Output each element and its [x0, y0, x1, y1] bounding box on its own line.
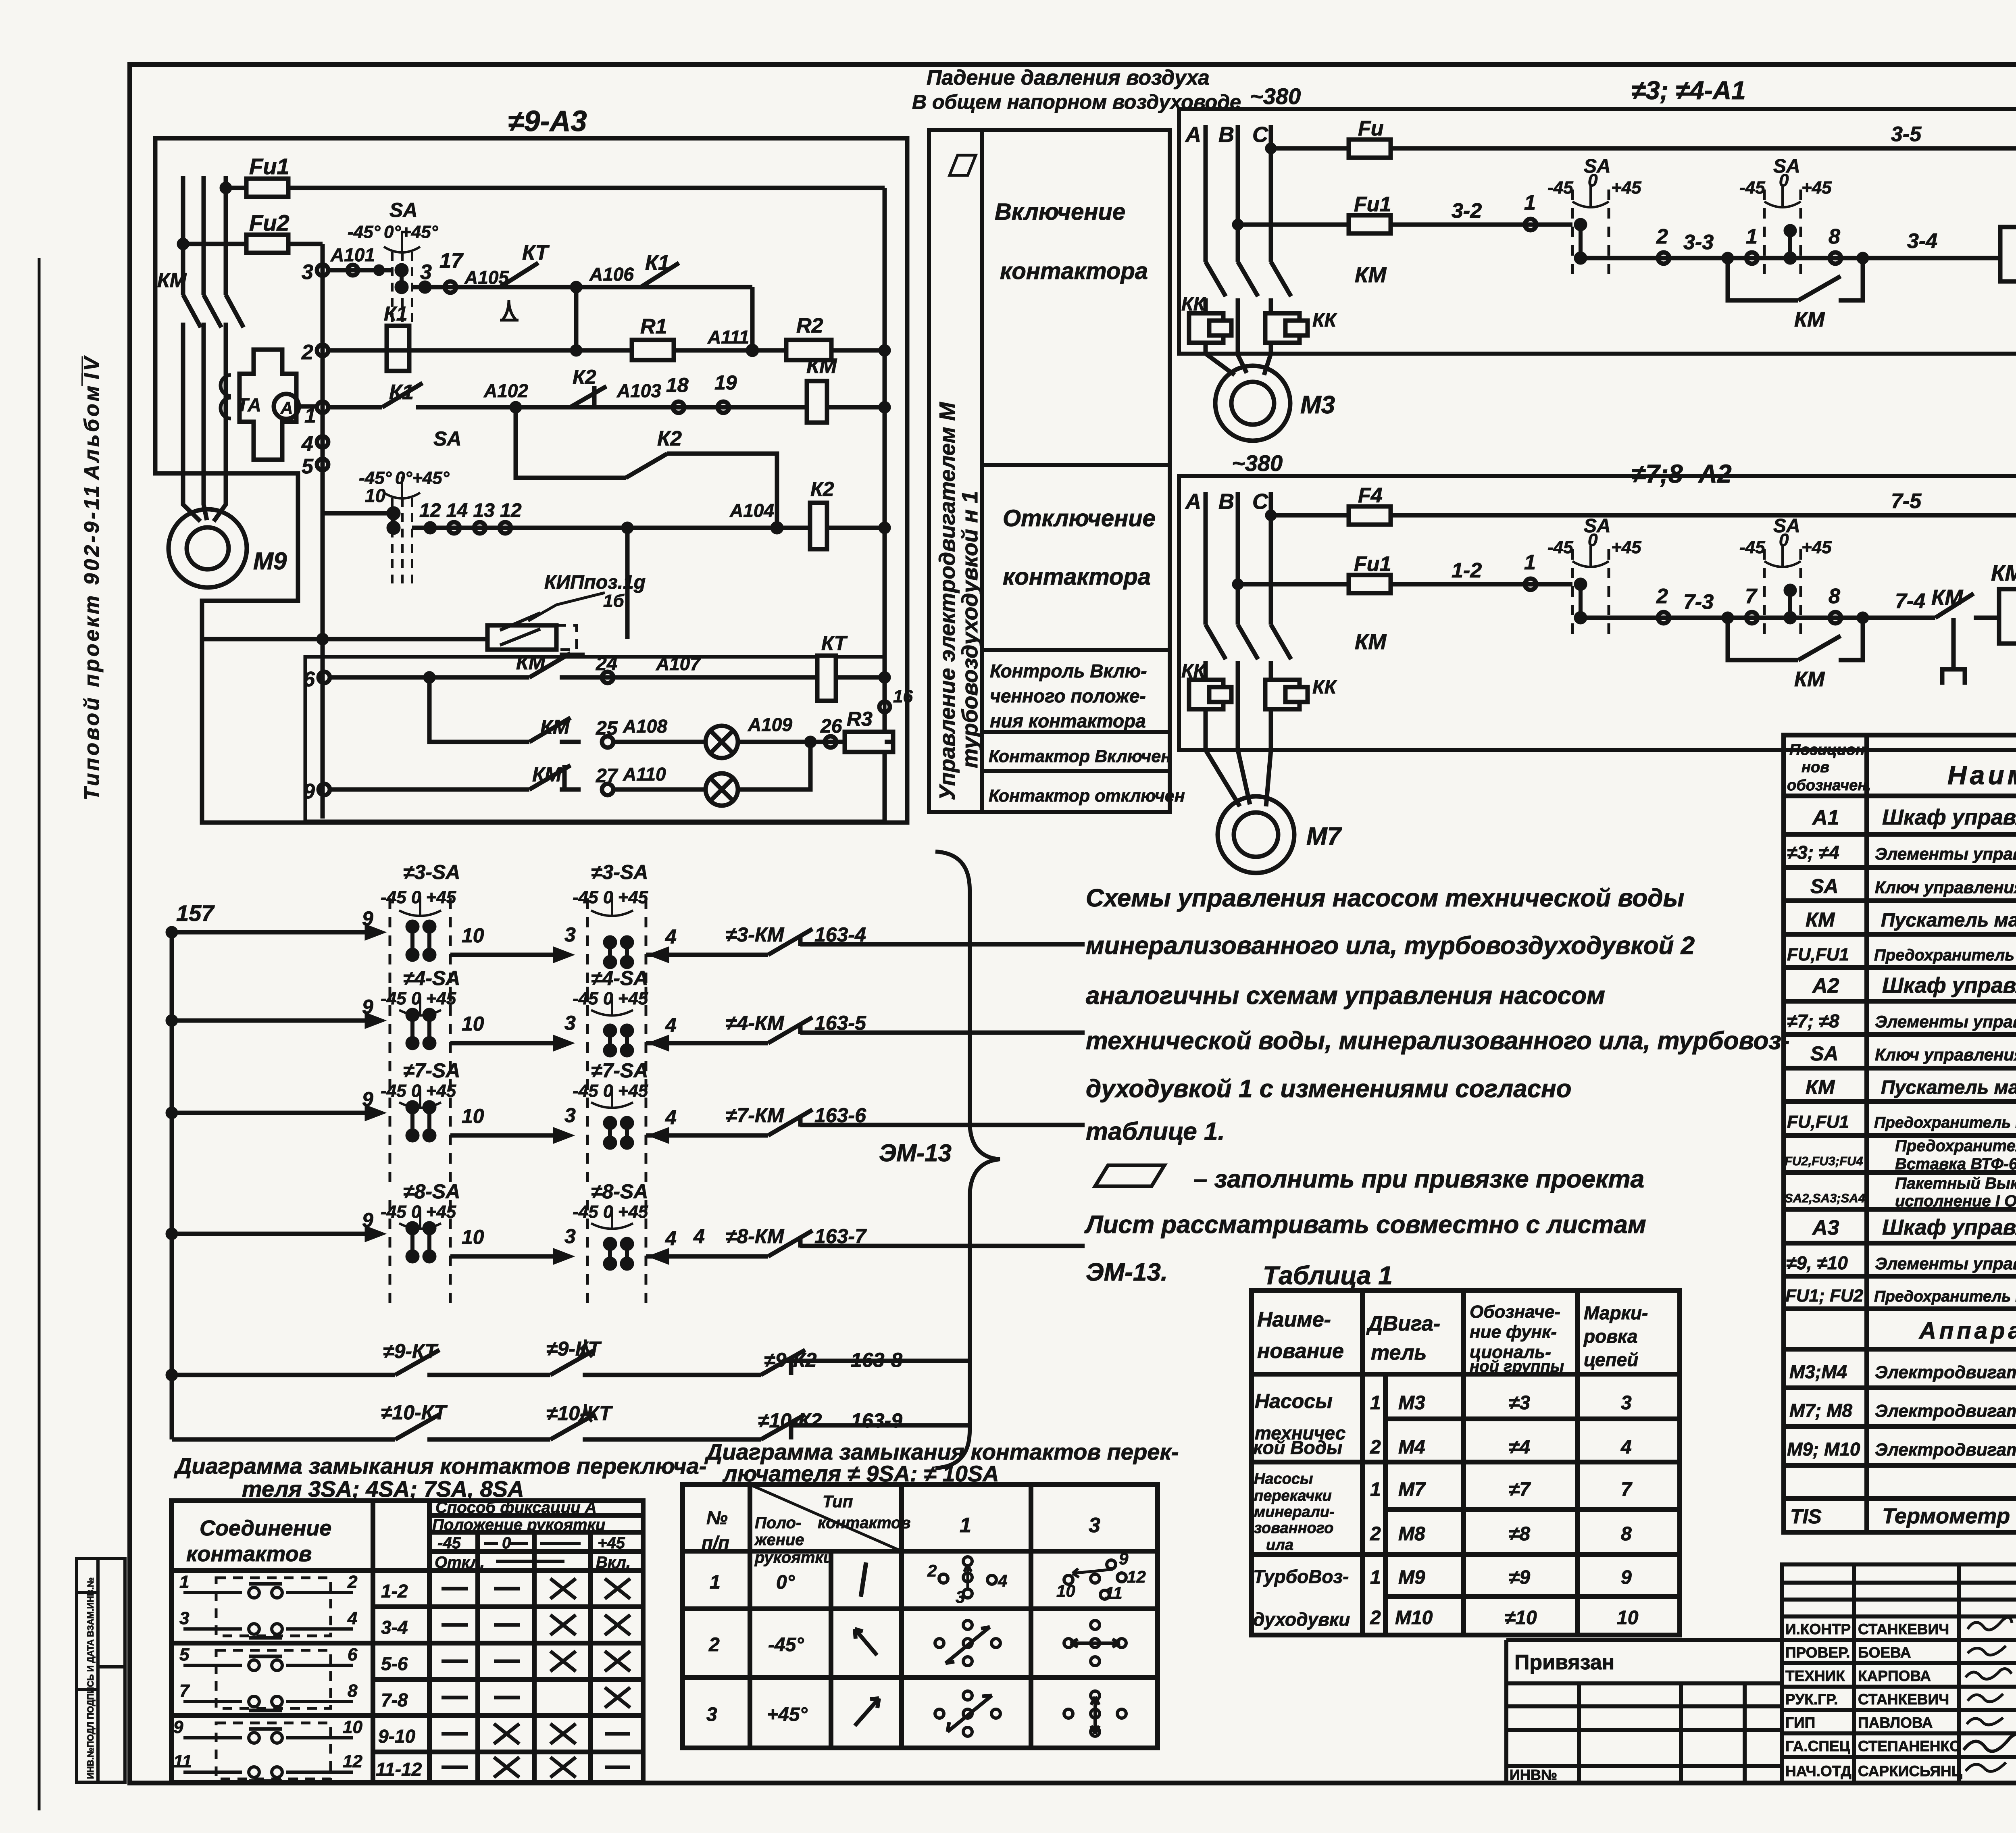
svg-text:≠7: ≠7	[1509, 1479, 1531, 1500]
svg-text:-45 0 +45: -45 0 +45	[381, 1202, 456, 1222]
svg-text:ПАВЛОВА: ПАВЛОВА	[1858, 1714, 1933, 1731]
contactor aux contact KM row7	[529, 718, 571, 742]
thermal element KK phase C	[1265, 680, 1300, 709]
node 24	[602, 672, 613, 683]
svg-text:-45: -45	[1547, 178, 1573, 198]
svg-text:Включение: Включение	[995, 199, 1125, 225]
function strip table	[929, 130, 1170, 812]
right-side bus	[883, 407, 887, 821]
svg-text:24: 24	[596, 653, 617, 675]
svg-text:М8: М8	[1398, 1523, 1425, 1545]
svg-text:4: 4	[998, 1571, 1007, 1590]
svg-text:4: 4	[1620, 1437, 1632, 1458]
terminal 3	[317, 265, 328, 276]
svg-text:R1: R1	[640, 315, 667, 338]
svg-text:Аппаратура по месту: Аппаратура по месту	[1918, 1318, 2016, 1344]
svg-text:контактора: контактора	[1000, 258, 1148, 284]
svg-text:-45 0 +45: -45 0 +45	[573, 1202, 648, 1222]
fuse F4 top rail	[1267, 512, 1275, 519]
svg-text:К1: К1	[389, 381, 414, 404]
svg-text:2: 2	[708, 1634, 720, 1656]
svg-text:теля 3SА; 4SА; 7SА, 8SА: теля 3SА; 4SА; 7SА, 8SА	[242, 1476, 524, 1502]
svg-text:СТАНКЕВИЧ: СТАНКЕВИЧ	[1858, 1691, 1949, 1708]
svg-text:FU1; FU2: FU1; FU2	[1785, 1286, 1864, 1306]
node 8	[1830, 612, 1841, 623]
svg-text:НАЧ.ОТД: НАЧ.ОТД	[1785, 1763, 1851, 1779]
node 18	[673, 402, 684, 413]
svg-text:4: 4	[665, 1014, 677, 1036]
svg-text:9: 9	[1621, 1567, 1632, 1588]
svg-text:ЭМ-13.: ЭМ-13.	[1086, 1258, 1168, 1286]
svg-text:Насосы: Насосы	[1255, 1390, 1333, 1412]
svg-text:10: 10	[365, 485, 386, 506]
svg-text:ИНВ№: ИНВ№	[1510, 1766, 1557, 1783]
relay contact K2 NC row1	[570, 386, 606, 407]
svg-text:1: 1	[1370, 1567, 1381, 1588]
motor M3	[1215, 366, 1290, 441]
terminal 5	[317, 459, 328, 470]
time contact #9-KT b with release	[550, 1350, 595, 1375]
svg-text:Шкаф управления ШУН14-01 (АУ-: Шкаф управления ШУН14-01 (АУ-7)	[1882, 973, 2016, 998]
svg-text:1: 1	[1524, 191, 1536, 215]
svg-text:9: 9	[362, 996, 373, 1018]
svg-text:≠10-КТ: ≠10-КТ	[381, 1401, 448, 1424]
svg-text:6: 6	[303, 668, 315, 691]
svg-text:А103: А103	[616, 380, 661, 401]
svg-text:Наименование: Наименование	[1947, 760, 2016, 790]
svg-text:контактов: контактов	[818, 1514, 911, 1532]
svg-text:Вставка ВТФ-6 ТУ16-521.037- 7: Вставка ВТФ-6 ТУ16-521.037- 75	[1895, 1155, 2016, 1173]
resistor R3	[845, 732, 893, 752]
svg-text:3: 3	[564, 923, 576, 946]
switch row SA7	[168, 1059, 1085, 1185]
relay contact K1 row1	[328, 383, 885, 407]
node A102	[512, 403, 520, 411]
svg-text:духодувкой 1 с изменениями с: духодувкой 1 с изменениями согласно	[1086, 1075, 1572, 1103]
node 19	[718, 402, 729, 413]
svg-text:КМ: КМ	[1794, 668, 1825, 691]
svg-text:≠3-SА: ≠3-SА	[403, 861, 460, 883]
svg-text:контактов: контактов	[186, 1542, 312, 1566]
self-hold branch KM	[1724, 254, 1732, 262]
svg-text:Ключ управленияПКУ3-12А3021 ТУ: Ключ управленияПКУ3-12А3021 ТУ16.526-047…	[1875, 878, 2016, 897]
svg-text:1б: 1б	[603, 591, 625, 611]
contactor KM main contacts	[183, 295, 244, 327]
svg-text:9: 9	[173, 1717, 183, 1737]
svg-text:К2: К2	[573, 366, 596, 388]
switch row SA4	[168, 967, 1085, 1092]
motor M7	[1218, 796, 1294, 873]
svg-text:К1: К1	[645, 251, 670, 275]
svg-text:духодувки: духодувки	[1253, 1609, 1350, 1630]
node 26	[825, 736, 836, 748]
svg-text:А2: А2	[1812, 974, 1839, 998]
svg-text:≠9-КТ: ≠9-КТ	[546, 1337, 602, 1360]
svg-text:М4: М4	[1398, 1437, 1425, 1458]
relay row KT9	[168, 1337, 968, 1379]
svg-text:1: 1	[1370, 1479, 1381, 1500]
svg-text:Fu1: Fu1	[249, 154, 289, 179]
svg-text:КМ: КМ	[1806, 1076, 1835, 1098]
svg-text:≠3: ≠3	[1509, 1392, 1530, 1414]
svg-text:тель: тель	[1371, 1341, 1427, 1364]
svg-text:≠3-КМ: ≠3-КМ	[726, 923, 785, 946]
svg-text:9: 9	[362, 1088, 373, 1110]
svg-text:16: 16	[893, 687, 913, 706]
svg-text:26: 26	[820, 716, 842, 737]
switch row SA3	[168, 861, 1085, 1004]
node 1b	[1746, 252, 1758, 264]
branch to K2 contact	[516, 407, 777, 524]
node 1	[1525, 579, 1536, 590]
svg-text:9-10: 9-10	[378, 1726, 415, 1747]
switch SA lower dashed stems	[392, 498, 412, 585]
signature table	[1782, 1564, 2016, 1783]
svg-text:SА: SА	[1810, 875, 1838, 898]
lamp row9	[706, 773, 738, 806]
svg-text:Электродвигатель типа: Электродвигатель типа	[1875, 1440, 2016, 1460]
svg-text:Электродвигатель типа АО2-22-4: Электродвигатель типа АО2-22-4; 1.5 кВт;…	[1875, 1362, 2016, 1382]
svg-text:В: В	[1218, 123, 1234, 147]
svg-text:≠4-SА: ≠4-SА	[591, 967, 648, 989]
svg-text:Контактор отключен: Контактор отключен	[989, 786, 1185, 806]
svg-text:163-8: 163-8	[851, 1349, 902, 1371]
svg-text:≠9-КТ: ≠9-КТ	[383, 1340, 439, 1362]
svg-text:-45 0 +45: -45 0 +45	[573, 989, 648, 1008]
svg-text:3: 3	[1621, 1392, 1632, 1414]
svg-text:3: 3	[564, 1104, 576, 1127]
svg-text:А107: А107	[656, 653, 701, 674]
svg-text:9: 9	[1119, 1549, 1129, 1568]
svg-text:11-12: 11-12	[376, 1759, 422, 1780]
fuse Fu1 control rail	[1234, 221, 1241, 228]
svg-text:Наиме-: Наиме-	[1257, 1308, 1331, 1331]
svg-text:А102: А102	[483, 380, 528, 401]
svg-text:М3: М3	[1398, 1392, 1425, 1414]
svg-text:Соединение: Соединение	[200, 1516, 331, 1540]
svg-text:Вкл.: Вкл.	[596, 1554, 631, 1571]
node 2	[1658, 252, 1669, 264]
svg-text:4: 4	[347, 1608, 357, 1628]
svg-text:А106: А106	[589, 264, 634, 285]
svg-text:ЭМ-13: ЭМ-13	[879, 1139, 952, 1166]
node 3 junction	[421, 283, 429, 292]
svg-text:КК: КК	[1181, 294, 1207, 315]
svg-text:F4: F4	[1358, 484, 1383, 507]
node 7	[1746, 612, 1758, 623]
instrument contact KIP	[487, 625, 556, 650]
svg-text:нование: нование	[1257, 1339, 1344, 1363]
svg-text:ДВига-: ДВига-	[1366, 1312, 1440, 1335]
svg-text:≠3-SА: ≠3-SА	[591, 861, 648, 883]
svg-text:ПРОВЕР.: ПРОВЕР.	[1785, 1644, 1850, 1661]
contact pair sketch group 9-12	[183, 1723, 353, 1781]
wire down to KIP	[202, 528, 627, 639]
svg-text:Поло-: Поло-	[755, 1514, 801, 1532]
svg-text:жение: жение	[754, 1531, 804, 1549]
svg-text:М7; М8: М7; М8	[1789, 1400, 1852, 1421]
fuse Fu1 control rail	[1234, 581, 1241, 588]
svg-text:Отключение: Отключение	[1003, 505, 1156, 531]
svg-text:≠8-SА: ≠8-SА	[403, 1180, 460, 1203]
wire after SA1	[1581, 256, 1931, 260]
phase wire L2	[204, 176, 207, 520]
svg-text:Управление электродвигателем М: Управление электродвигателем М	[935, 402, 960, 800]
svg-text:Положение рукоятки: Положение рукоятки	[432, 1516, 605, 1534]
node 2	[1658, 612, 1669, 623]
svg-text:М7: М7	[1306, 823, 1342, 850]
svg-text:10: 10	[462, 924, 484, 947]
fuse Fu top rail	[1267, 145, 1275, 152]
wire row9	[330, 787, 581, 792]
relay contact #10-K2	[761, 1414, 805, 1439]
brace EM-13	[935, 852, 1000, 1468]
svg-text:19: 19	[714, 371, 737, 394]
svg-text:2: 2	[347, 1572, 358, 1592]
svg-text:КМ: КМ	[1355, 630, 1387, 654]
svg-text:контактора: контактора	[1003, 564, 1151, 590]
svg-text:Fu2: Fu2	[249, 210, 289, 235]
svg-text:1: 1	[710, 1572, 721, 1593]
svg-text:РУК.ГР.: РУК.ГР.	[1785, 1691, 1838, 1708]
svg-text:К2: К2	[810, 478, 834, 500]
SA contact dots row3	[400, 270, 404, 287]
svg-text:-45: -45	[1739, 537, 1765, 557]
svg-text:Альбом ̅I̅V̅: Альбом ̅I̅V̅	[80, 354, 104, 481]
svg-text:2: 2	[1370, 1523, 1381, 1545]
svg-text:FU,FU1: FU,FU1	[1787, 945, 1849, 964]
wire after SA1	[1581, 616, 1935, 620]
svg-text:1: 1	[1370, 1392, 1381, 1414]
svg-text:Элементы управления электрод: Элементы управления электродвигателямиМ9…	[1875, 1254, 2016, 1273]
svg-text:Пускатель магнитный ПМЕ-212.н.: Пускатель магнитный ПМЕ-212.н.э. 3,86А	[1881, 910, 2016, 931]
svg-text:7: 7	[1621, 1479, 1633, 1500]
svg-text:+45: +45	[1611, 178, 1641, 198]
svg-text:FU,FU1: FU,FU1	[1787, 1112, 1849, 1132]
terminal 2	[317, 345, 328, 356]
svg-text:цепей: цепей	[1584, 1349, 1638, 1370]
thermal element KK phase A	[1189, 680, 1223, 709]
svg-text:Предохранитель НПН2-60 пл. Вст: Предохранитель НПН2-60 пл. Вст. 6А:ТУ16-…	[1874, 1288, 2016, 1305]
svg-text:ТурбоВоз-: ТурбоВоз-	[1253, 1566, 1349, 1587]
svg-text:12 14 13 12: 12 14 13 12	[419, 500, 522, 521]
time relay coil KT	[817, 656, 836, 701]
svg-text:11: 11	[1105, 1583, 1123, 1602]
svg-text:≠9-К2: ≠9-К2	[764, 1349, 817, 1371]
svg-text:Fu1: Fu1	[1354, 552, 1391, 576]
svg-text:Насосы: Насосы	[1254, 1471, 1313, 1487]
svg-text:+45°: +45°	[767, 1704, 808, 1725]
svg-text:ченного положе-: ченного положе-	[990, 685, 1146, 706]
svg-text:≠10-КТ: ≠10-КТ	[546, 1402, 613, 1425]
svg-text:3-3: 3-3	[1683, 231, 1714, 254]
svg-text:≠8-КМ: ≠8-КМ	[726, 1225, 785, 1248]
svg-text:ила: ила	[1266, 1537, 1293, 1554]
node 17	[445, 281, 456, 293]
svg-text:10: 10	[1617, 1607, 1639, 1629]
phase wire B	[1238, 125, 1247, 373]
svg-text:Способ фиксации А: Способ фиксации А	[435, 1499, 597, 1516]
svg-text:2: 2	[927, 1561, 937, 1580]
time contact #9-KT a	[395, 1350, 439, 1375]
svg-text:Предохранитель НПН2-60пл.Вст.6: Предохранитель НПН2-60пл.Вст.6А ТУ16-521…	[1874, 946, 2016, 964]
svg-text:-45 0 +45: -45 0 +45	[381, 989, 456, 1008]
svg-text:ИНВ.№ПОДЛ ПОДПИСЬ И ДАТА ВЗА: ИНВ.№ПОДЛ ПОДПИСЬ И ДАТА ВЗАМ.ИНВ.№	[85, 1577, 96, 1779]
svg-text:SА: SА	[389, 199, 417, 221]
svg-text:Пакетный Выключатель ПВ2-10IУ3: Пакетный Выключатель ПВ2-10IУ300	[1895, 1175, 2016, 1192]
svg-text:-45 0 +45: -45 0 +45	[573, 887, 648, 907]
svg-text:3: 3	[956, 1587, 965, 1606]
svg-text:≠7; ≠8: ≠7; ≠8	[1787, 1010, 1839, 1031]
contactor KM main contacts	[1206, 262, 1291, 296]
svg-text:7-4: 7-4	[1895, 589, 1925, 613]
svg-text:FU2,FU3;FU4: FU2,FU3;FU4	[1785, 1154, 1863, 1168]
control rows box	[305, 657, 885, 821]
svg-text:Электродвигательтипа АО2-62-2;: Электродвигательтипа АО2-62-2; 17кВт. ~3…	[1875, 1401, 2016, 1421]
switch SA row3 dashed stems	[392, 252, 412, 323]
svg-text:Позицион: Позицион	[1789, 742, 1865, 758]
svg-text:КМ: КМ	[1794, 308, 1825, 331]
svg-text:минерали-: минерали-	[1254, 1504, 1335, 1521]
svg-text:1-2: 1-2	[1452, 559, 1482, 582]
contactor coil KM	[1999, 589, 2016, 644]
svg-text:7-5: 7-5	[1891, 489, 1922, 513]
svg-text:КМ: КМ	[1991, 560, 2016, 585]
privyazan box	[1506, 1640, 1782, 1783]
svg-text:КМ: КМ	[516, 651, 546, 674]
svg-text:СТЕПАНЕНКО: СТЕПАНЕНКО	[1858, 1738, 1961, 1754]
cabinet A1 outline	[1179, 109, 2016, 354]
phase wire L1	[183, 176, 200, 521]
svg-text:САРКИСЬЯНЦ: САРКИСЬЯНЦ	[1858, 1763, 1962, 1779]
signatures squiggles	[1964, 1617, 2016, 1771]
svg-text:Предохранитель НПН2-60 пл. Вст: Предохранитель НПН2-60 пл. Вст. 6А ТУ16-…	[1874, 1114, 2016, 1131]
node 1	[1525, 219, 1536, 230]
svg-text:М10: М10	[1395, 1607, 1433, 1629]
svg-text:А111: А111	[707, 327, 749, 348]
svg-text:КМ: КМ	[532, 763, 562, 786]
svg-text:18: 18	[666, 374, 689, 396]
svg-text:А: А	[280, 398, 293, 417]
svg-text:ТIS: ТIS	[1790, 1505, 1822, 1528]
svg-text:9: 9	[303, 780, 315, 803]
svg-text:Fu1: Fu1	[1354, 193, 1391, 216]
svg-text:≠9-А3: ≠9-А3	[508, 105, 587, 137]
phase wire L3	[214, 176, 226, 521]
svg-text:-45: -45	[437, 1534, 461, 1552]
node 16	[879, 702, 890, 712]
svg-text:0: 0	[1779, 530, 1789, 550]
svg-text:≠4-КМ: ≠4-КМ	[726, 1012, 785, 1034]
svg-text:КК: КК	[1312, 310, 1338, 331]
svg-text:10: 10	[462, 1012, 484, 1035]
wire row2	[328, 350, 885, 407]
svg-text:Марки-: Марки-	[1584, 1302, 1648, 1323]
left sheet edge line	[38, 258, 41, 1810]
svg-text:КМ: КМ	[1931, 585, 1963, 610]
svg-text:3-2: 3-2	[1452, 199, 1482, 223]
node 8	[1830, 252, 1841, 264]
svg-text:10: 10	[462, 1226, 484, 1248]
svg-text:М3;М4: М3;М4	[1789, 1361, 1847, 1382]
svg-text:А: А	[1185, 123, 1201, 147]
table 1 grid	[1252, 1290, 1680, 1635]
svg-text:7-8: 7-8	[381, 1689, 408, 1710]
contactor aux contact KM NC row9	[529, 765, 571, 789]
svg-text:2: 2	[301, 341, 313, 364]
svg-text:2: 2	[1370, 1607, 1381, 1629]
svg-text:Элементы управления электродви: Элементы управления электродвигателямиМ7…	[1875, 1012, 2016, 1031]
svg-text:≠9: ≠9	[1509, 1567, 1530, 1588]
svg-text:≠7-КМ: ≠7-КМ	[726, 1104, 785, 1127]
svg-text:М9; М10: М9; М10	[1787, 1439, 1860, 1460]
contactor KM main contacts	[1206, 625, 1291, 659]
svg-text:аналогичны схемам управления: аналогичны схемам управления насосом	[1086, 982, 1605, 1010]
svg-text:М3: М3	[1300, 391, 1335, 419]
svg-text:-45° 0°+45°: -45° 0°+45°	[348, 222, 438, 242]
SA contact dots lower	[392, 513, 396, 528]
svg-text:А110: А110	[623, 764, 666, 785]
relay contact K1 row3	[641, 263, 679, 287]
svg-text:ния контактора: ния контактора	[990, 710, 1146, 731]
svg-text:≠7-SА: ≠7-SА	[591, 1059, 648, 1082]
svg-text:≠4-SА: ≠4-SА	[403, 967, 460, 989]
terminal 1	[317, 402, 328, 413]
svg-text:КМ: КМ	[1806, 908, 1835, 931]
svg-text:0: 0	[1779, 171, 1789, 190]
svg-text:7: 7	[179, 1681, 190, 1701]
contact pair sketch group 5-8	[183, 1650, 353, 1710]
thermal element KK phase A	[1189, 313, 1223, 343]
bus wire	[170, 927, 174, 1439]
wire row3	[328, 270, 752, 350]
svg-text:Тип: Тип	[823, 1492, 853, 1511]
svg-text:М9: М9	[253, 548, 287, 575]
svg-text:И.КОНТР: И.КОНТР	[1785, 1621, 1851, 1637]
svg-text:+45: +45	[1611, 537, 1641, 557]
terminal 6	[319, 672, 330, 683]
svg-text:9: 9	[362, 1209, 373, 1231]
svg-text:+45: +45	[1801, 537, 1832, 557]
svg-text:R2: R2	[796, 314, 823, 337]
svg-text:+45: +45	[598, 1534, 625, 1552]
resistor R2	[786, 340, 831, 360]
svg-text:8: 8	[348, 1681, 358, 1701]
svg-text:157: 157	[176, 900, 215, 926]
svg-text:нов: нов	[1801, 759, 1829, 776]
svg-text:ГИП: ГИП	[1785, 1714, 1815, 1731]
node A106	[572, 283, 580, 291]
contact pair sketch group 1-4	[183, 1578, 353, 1638]
svg-text:-45 0 +45: -45 0 +45	[573, 1081, 648, 1101]
svg-text:К1: К1	[384, 302, 408, 325]
svg-text:3: 3	[564, 1012, 576, 1034]
bottom-left vertical stamp table	[77, 1558, 125, 1782]
svg-text:БОЕВА: БОЕВА	[1858, 1644, 1911, 1661]
svg-text:3: 3	[179, 1608, 189, 1628]
svg-text:5-6: 5-6	[381, 1653, 408, 1674]
svg-text:≠3; ≠4-А1: ≠3; ≠4-А1	[1631, 76, 1746, 105]
svg-text:3: 3	[420, 260, 432, 284]
svg-text:кой Воды: кой Воды	[1253, 1437, 1342, 1458]
relay coil K1	[387, 326, 409, 371]
fuse Fu1	[246, 179, 288, 197]
svg-text:≠7-SА: ≠7-SА	[403, 1059, 460, 1082]
svg-text:Элементы управления электродви: Элементы управления электродвигателями М…	[1875, 844, 2016, 863]
svg-text:-45: -45	[1547, 537, 1573, 557]
svg-text:17: 17	[439, 249, 464, 273]
svg-text:Термометр манометрический ТСМ-: Термометр манометрический ТСМ-100	[1882, 1504, 2016, 1528]
